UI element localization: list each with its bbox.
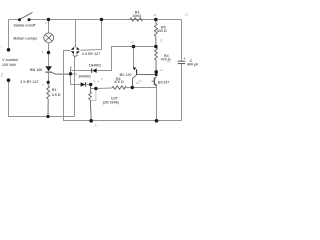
wire lamp feed bbox=[48, 20, 50, 34]
node 4 bbox=[47, 81, 50, 84]
svg-text:13: 13 bbox=[139, 79, 142, 83]
wire SCR cathode bbox=[48, 72, 50, 82]
wire diode D1 to riser bbox=[97, 47, 156, 71]
node diode row junction bbox=[89, 83, 92, 86]
node 3 SCR anode bbox=[47, 51, 50, 54]
svg-text:3.5 Ω: 3.5 Ω bbox=[52, 93, 61, 97]
wire upper diode feed bbox=[71, 70, 92, 72]
node source bottom terminal bbox=[7, 78, 11, 82]
svg-text:15: 15 bbox=[167, 60, 170, 64]
wire row to emitter of BC147 bbox=[132, 87, 156, 89]
node mid rail right bbox=[154, 45, 158, 49]
wire gate crossing stub bbox=[71, 73, 77, 75]
svg-text:330 Ω: 330 Ω bbox=[157, 29, 167, 33]
wire right rail bbox=[181, 20, 183, 61]
node R1 bottom junction bbox=[46, 115, 49, 118]
node 8b bottom rail junction bbox=[89, 119, 93, 123]
wire bridge right arm bbox=[80, 20, 101, 51]
switch S1 bbox=[20, 12, 33, 19]
svg-text:(2N 2646): (2N 2646) bbox=[103, 100, 120, 104]
svg-text:Beban Lampu: Beban Lampu bbox=[14, 37, 38, 41]
svg-text:1N4002: 1N4002 bbox=[89, 63, 102, 67]
wire gate down to diode row bbox=[71, 74, 81, 85]
resistor R5 vertical bbox=[154, 20, 157, 47]
resistor R4 vertical bbox=[155, 47, 158, 72]
node B2 base junction bbox=[155, 73, 158, 76]
svg-text:4 X BY 127: 4 X BY 127 bbox=[20, 80, 38, 84]
svg-text:V sumber: V sumber bbox=[2, 58, 19, 62]
svg-text:470 Ω: 470 Ω bbox=[114, 80, 124, 84]
wire emitter row start bbox=[91, 88, 96, 90]
transistor UJT symbol (BC 107) bbox=[133, 67, 157, 87]
wire SCR anode bbox=[48, 53, 50, 67]
node 2 lamp tap bbox=[47, 18, 50, 21]
wire lamp to node 3 bbox=[48, 43, 50, 53]
svg-text:12: 12 bbox=[153, 13, 156, 17]
svg-text:13: 13 bbox=[185, 13, 188, 17]
svg-text:12: 12 bbox=[131, 40, 134, 44]
svg-text:Saklar on/off: Saklar on/off bbox=[14, 24, 37, 28]
node 14 bbox=[154, 70, 158, 74]
rectifier bridge 4 X BY 127 bbox=[71, 45, 80, 57]
svg-text:220 Volt: 220 Volt bbox=[2, 63, 16, 67]
resistor R6 vertical bbox=[89, 85, 92, 121]
capacitor C 400uF bbox=[178, 58, 186, 64]
svg-text:400 µF: 400 µF bbox=[187, 63, 199, 67]
wire bridge left arm bbox=[64, 51, 182, 121]
switch contact right bbox=[28, 18, 31, 21]
wire hook bbox=[91, 89, 96, 101]
wire bridge top feed bbox=[75, 20, 77, 47]
node UJT row left bbox=[94, 87, 97, 90]
wire gate stub up bbox=[70, 67, 72, 74]
wire UJT emitter drop bbox=[133, 47, 135, 69]
thyristor SCR BN126 bbox=[45, 66, 70, 74]
wire bridge bottom bbox=[74, 57, 76, 117]
svg-text:BC 107: BC 107 bbox=[120, 73, 132, 77]
node 10 junction bbox=[131, 86, 134, 89]
switch contact left bbox=[18, 18, 21, 21]
svg-text:BN 126: BN 126 bbox=[30, 68, 42, 72]
resistor R2 horizontal bbox=[96, 86, 132, 89]
wire emitter to bottom rail bbox=[156, 86, 158, 121]
node mid rail left (UJT emitter tap) bbox=[132, 45, 136, 49]
wire top rail after switch bbox=[29, 19, 182, 21]
svg-text:14: 14 bbox=[160, 68, 163, 72]
node 7 gate junction bbox=[69, 72, 72, 75]
resistor R3 horizontal bbox=[130, 18, 143, 21]
transistor Q BC147 bbox=[152, 75, 157, 87]
node bottom rail right junction bbox=[155, 119, 159, 123]
svg-text:BC147: BC147 bbox=[158, 81, 169, 85]
diode D2 1N4002 (points right) bbox=[81, 82, 86, 86]
svg-text:11: 11 bbox=[160, 38, 163, 42]
resistor R1 bbox=[47, 82, 50, 116]
node bridge right to top rail bbox=[100, 18, 103, 21]
svg-text:10kΩ: 10kΩ bbox=[132, 14, 141, 18]
svg-text:4 X BY 127: 4 X BY 127 bbox=[82, 52, 100, 56]
diode D1 1N4002 (points left) bbox=[92, 68, 97, 73]
node source top terminal bbox=[7, 48, 11, 52]
lamp load (Beban Lampu) bbox=[44, 33, 54, 43]
wire left rail lower bbox=[9, 81, 75, 117]
svg-text:1N4002: 1N4002 bbox=[78, 74, 91, 78]
node 12 top bbox=[154, 18, 158, 22]
wire left rail upper bbox=[8, 20, 10, 49]
svg-text:R1: R1 bbox=[52, 88, 57, 92]
wire top rail bbox=[9, 19, 20, 21]
wire D2 to node bbox=[86, 84, 91, 86]
